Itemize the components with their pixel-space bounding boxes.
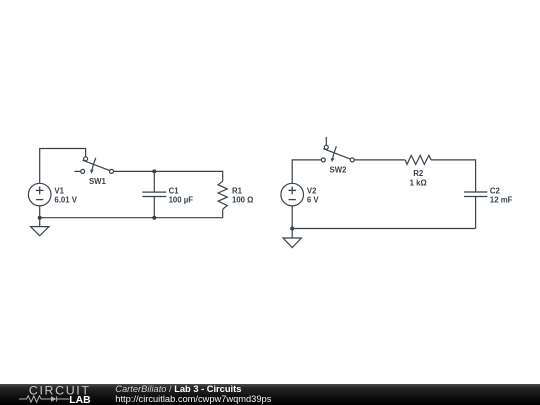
wire V1 bottom to ground: [39, 206, 41, 227]
svg-text:R1: R1: [232, 186, 243, 195]
wire V2 top to SW2: [292, 160, 321, 183]
voltage source V1: [28, 183, 51, 206]
svg-text:CarterBiliato / Lab 3 - Circui: CarterBiliato / Lab 3 - Circuits: [115, 384, 241, 394]
switch SW1: [74, 157, 113, 174]
node V2 ground junction: [290, 227, 294, 231]
node V1 ground junction: [38, 216, 42, 220]
ground (circuit 2): [283, 238, 301, 248]
node C1 bottom junction: [152, 216, 156, 220]
CircuitLab logo: [19, 383, 91, 405]
voltage source V2: [281, 183, 304, 206]
wire V1 top rail to SW1 top pin: [40, 149, 86, 184]
ground (circuit 1): [31, 227, 49, 236]
wire bottom rail (circuit 2): [292, 228, 475, 230]
resistor R1: [218, 181, 227, 209]
wire R1 bottom rail: [40, 209, 223, 218]
wire SW2 to R2: [354, 159, 405, 161]
wire V2 bottom to ground: [291, 206, 293, 238]
svg-text:SW2: SW2: [330, 166, 348, 175]
svg-text:LAB: LAB: [69, 394, 91, 405]
capacitor C1: [142, 171, 166, 217]
footer bar: [0, 384, 540, 405]
wire R2 to C2 (right rail): [431, 160, 476, 192]
switch SW2: [321, 137, 354, 162]
node C1 top junction: [152, 169, 156, 173]
svg-text:6 V: 6 V: [307, 195, 320, 204]
svg-text:C1: C1: [169, 186, 180, 195]
svg-text:100 µF: 100 µF: [169, 195, 194, 204]
wire SW1 to R1 (mid rail): [114, 171, 223, 181]
svg-text:12 mF: 12 mF: [490, 195, 513, 204]
svg-text:http://circuitlab.com/cwpw7wqm: http://circuitlab.com/cwpw7wqmd39ps: [115, 394, 271, 404]
capacitor C2: [464, 192, 487, 229]
svg-text:1 kΩ: 1 kΩ: [410, 179, 427, 188]
svg-text:SW1: SW1: [89, 177, 107, 186]
svg-text:C2: C2: [490, 186, 501, 195]
resistor R2: [405, 155, 431, 164]
svg-text:6.01 V: 6.01 V: [54, 195, 77, 204]
svg-text:V1: V1: [54, 186, 64, 195]
svg-text:V2: V2: [307, 186, 317, 195]
svg-text:100 Ω: 100 Ω: [232, 195, 253, 204]
svg-text:R2: R2: [413, 169, 424, 178]
